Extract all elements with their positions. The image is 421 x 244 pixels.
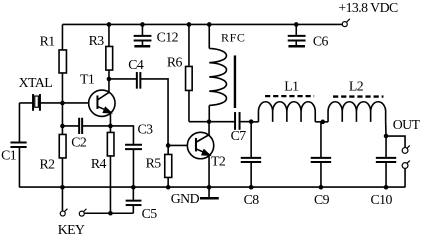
node base T1 bbox=[60, 101, 65, 106]
capacitor C8 bbox=[241, 122, 261, 188]
capacitor C1 bbox=[10, 143, 26, 148]
wire bottom ground rail bbox=[19, 186, 405, 188]
wire key drop bbox=[61, 187, 63, 211]
svg-text:XTAL: XTAL bbox=[19, 75, 53, 90]
node top rail C12 bbox=[140, 22, 145, 27]
resistor R2 bbox=[59, 126, 66, 188]
wire C4 to T2 base node bbox=[140, 79, 168, 146]
svg-text:C1: C1 bbox=[1, 148, 17, 163]
capacitor C7 bbox=[235, 112, 240, 130]
node ground C10 bbox=[384, 185, 389, 190]
node C2 left bbox=[60, 124, 65, 129]
svg-text:R4: R4 bbox=[91, 156, 107, 171]
svg-text:C7: C7 bbox=[231, 128, 247, 143]
node ground C8 bbox=[249, 185, 254, 190]
wire bbox=[132, 149, 134, 187]
resistor R4 bbox=[107, 126, 114, 213]
node top rail R3 bbox=[107, 22, 112, 27]
svg-text:C10: C10 bbox=[370, 192, 392, 207]
ground bar of C12 bbox=[134, 45, 150, 47]
wire bbox=[404, 168, 406, 187]
svg-text:C6: C6 bbox=[313, 34, 329, 49]
core dashes of L2 bbox=[333, 95, 383, 97]
capacitor C10 bbox=[376, 136, 396, 187]
svg-text:C3: C3 bbox=[137, 121, 153, 136]
svg-text:OUT: OUT bbox=[393, 117, 421, 132]
node ground R2 bbox=[60, 185, 65, 190]
svg-text:L1: L1 bbox=[284, 79, 299, 94]
node collector T2 bbox=[207, 119, 212, 124]
wire key line bbox=[84, 212, 133, 214]
switch KEY bbox=[60, 209, 86, 217]
inductor L2 bbox=[323, 102, 386, 136]
capacitor C5 bbox=[126, 187, 142, 213]
node ground C9 bbox=[319, 185, 324, 190]
wire T2 base bbox=[168, 144, 196, 146]
capacitor C12 bbox=[134, 24, 152, 45]
node C8 top bbox=[249, 119, 254, 124]
svg-text:R6: R6 bbox=[167, 55, 183, 70]
capacitor C9 bbox=[311, 122, 331, 188]
inductor RFC choke bbox=[209, 24, 226, 121]
svg-text:T1: T1 bbox=[80, 72, 95, 87]
wire base node T1 bbox=[19, 102, 33, 104]
crystal XTAL bbox=[33, 94, 40, 111]
svg-text:L2: L2 bbox=[349, 79, 364, 94]
node top rail RFC bbox=[207, 22, 212, 27]
svg-text:R3: R3 bbox=[89, 33, 105, 48]
svg-text:R2: R2 bbox=[39, 157, 55, 172]
svg-text:C4: C4 bbox=[128, 57, 144, 72]
wire bbox=[18, 147, 20, 187]
svg-text:+13.8 VDC: +13.8 VDC bbox=[338, 0, 398, 15]
ground bar of C6 bbox=[288, 45, 305, 47]
node emitter T1 bbox=[108, 124, 113, 129]
node ground T2 bbox=[207, 185, 212, 190]
wire collector rail y121 bbox=[189, 121, 235, 123]
resistor R5 bbox=[165, 145, 172, 187]
svg-text:KEY: KEY bbox=[58, 222, 85, 237]
node C9 top bbox=[320, 120, 325, 125]
svg-text:C5: C5 bbox=[142, 206, 158, 221]
wire R2 column upper bbox=[61, 103, 63, 126]
svg-text:C2: C2 bbox=[71, 135, 87, 150]
connector OUT jack bbox=[402, 145, 410, 168]
transistor T2 bbox=[187, 122, 213, 188]
node top rail C6 bbox=[294, 22, 299, 27]
resistor R6 bbox=[186, 24, 193, 121]
node collector T1 bbox=[107, 77, 112, 82]
svg-text:C8: C8 bbox=[244, 192, 260, 207]
node C10 top bbox=[384, 134, 389, 139]
inductor L1 bbox=[251, 102, 323, 122]
svg-text:C9: C9 bbox=[314, 192, 330, 207]
wire collector node to C4 bbox=[109, 78, 137, 80]
node base T2 bbox=[166, 143, 171, 148]
node ground R5 bbox=[166, 185, 171, 190]
capacitor C6 bbox=[288, 24, 306, 45]
svg-text:R1: R1 bbox=[40, 34, 56, 49]
svg-text:T2: T2 bbox=[211, 153, 226, 168]
core dashes of L1 bbox=[265, 95, 314, 97]
svg-text:RFC: RFC bbox=[221, 30, 245, 44]
capacitor C2 bbox=[62, 118, 110, 134]
node key line R4 bbox=[108, 211, 113, 216]
wire left branch bbox=[18, 103, 20, 143]
capacitor C3 bbox=[125, 145, 142, 149]
ground GND bbox=[200, 187, 219, 198]
wire OUT branch bbox=[386, 136, 405, 148]
core bar of RFC bbox=[234, 55, 236, 107]
resistor R1 bbox=[59, 24, 66, 103]
svg-text:C12: C12 bbox=[157, 30, 179, 45]
wire bbox=[240, 121, 252, 123]
svg-text:R5: R5 bbox=[146, 156, 162, 171]
node ground C3 bbox=[131, 185, 136, 190]
svg-text:GND: GND bbox=[171, 191, 200, 206]
node top rail R6 bbox=[187, 22, 192, 27]
terminal +13.8 VDC bbox=[342, 19, 350, 27]
resistor R3 bbox=[106, 24, 113, 78]
wire top supply rail bbox=[62, 23, 342, 25]
wire bbox=[40, 102, 97, 104]
transistor T1 bbox=[89, 79, 115, 126]
capacitor C4 bbox=[137, 72, 141, 89]
wire emitter node to C3 bbox=[110, 126, 133, 145]
